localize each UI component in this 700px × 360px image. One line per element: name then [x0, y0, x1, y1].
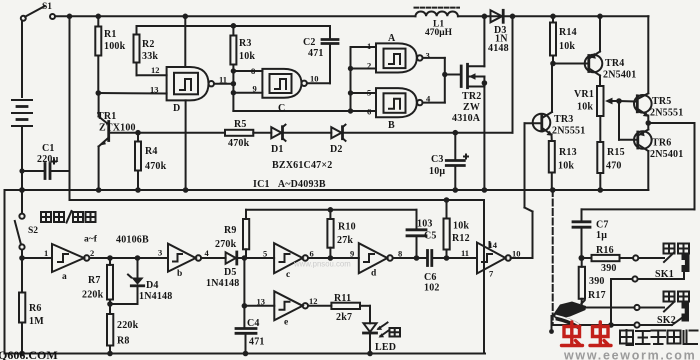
- svg-text:10k: 10k: [559, 41, 575, 52]
- svg-text:33k: 33k: [142, 51, 158, 62]
- transistor TR5 2N5551: [634, 16, 683, 123]
- svg-text:R10: R10: [338, 222, 356, 233]
- node TR1 collector / R1 / pin13: [96, 90, 167, 96]
- feedback net wire (R9,R10,C5 tops): [246, 209, 417, 211]
- svg-text:5: 5: [367, 88, 371, 98]
- resistor R9 270k: [215, 210, 249, 258]
- svg-text:10k: 10k: [453, 221, 469, 232]
- resistor R5 470k: [225, 119, 253, 149]
- svg-text:R12: R12: [452, 233, 470, 244]
- output node wire TR5/TR6 to C7: [582, 123, 695, 209]
- svg-text:C2: C2: [303, 37, 316, 48]
- svg-text:4310A: 4310A: [452, 113, 481, 124]
- battery B1: [12, 100, 32, 126]
- nand gate B (4093): [367, 88, 431, 132]
- resistor R2 33k: [134, 26, 167, 75]
- svg-text:2: 2: [367, 61, 371, 71]
- svg-text:R13: R13: [559, 147, 577, 158]
- svg-text:C1: C1: [42, 143, 55, 154]
- supply line after D3 down to bias row: [512, 16, 514, 132]
- ground rail: [5, 189, 649, 191]
- svg-text:R8: R8: [117, 336, 130, 347]
- svg-text:12: 12: [151, 65, 160, 75]
- ground drop to jacks (dashed scan line): [550, 187, 556, 325]
- label output (CJK) lower: [664, 292, 690, 302]
- wire gate D output branch to gates A and B inputs: [233, 47, 376, 114]
- node C7 / R16 / R17: [579, 255, 585, 261]
- svg-text:D2: D2: [330, 144, 343, 155]
- svg-text:5: 5: [263, 249, 267, 259]
- svg-text:S1: S1: [42, 2, 52, 12]
- svg-text:C6: C6: [424, 272, 437, 283]
- svg-text:TR2: TR2: [462, 91, 482, 102]
- svg-text:2: 2: [90, 248, 94, 258]
- svg-text:10: 10: [310, 74, 319, 84]
- transistor TR4 2N5401: [553, 13, 636, 86]
- resistor R16 390: [582, 245, 634, 274]
- resistor R12 10k: [444, 197, 470, 261]
- svg-text:TR1: TR1: [97, 111, 117, 122]
- svg-text:TR5: TR5: [652, 96, 672, 107]
- svg-text:TR3: TR3: [554, 114, 574, 125]
- svg-text:C4: C4: [247, 318, 260, 329]
- bias row wire TR1 base: [109, 132, 513, 134]
- svg-text:471: 471: [249, 337, 265, 348]
- svg-text:TR6: TR6: [652, 138, 672, 149]
- svg-text:1: 1: [44, 248, 48, 258]
- svg-text:D5: D5: [224, 267, 237, 278]
- resistor R7 220k: [82, 255, 113, 304]
- svg-text:13: 13: [257, 297, 266, 307]
- svg-text:102: 102: [424, 283, 440, 294]
- svg-text:R9: R9: [224, 225, 237, 236]
- svg-text:VR1: VR1: [574, 89, 594, 100]
- svg-text:103: 103: [417, 219, 433, 230]
- svg-text:R6: R6: [29, 303, 42, 314]
- svg-text:b: b: [177, 269, 182, 279]
- svg-text:c: c: [286, 270, 290, 280]
- gate D IC power ticks: [183, 13, 189, 192]
- svg-text:1M: 1M: [29, 316, 44, 327]
- svg-text:R3: R3: [239, 38, 252, 49]
- jack SK1: [611, 252, 690, 282]
- svg-text:2N5551: 2N5551: [552, 126, 585, 137]
- capacitor C2 471: [303, 26, 338, 83]
- wire R2 feedback net y=26: [137, 25, 331, 27]
- inverter f riser to TR3 base: [511, 123, 533, 258]
- wire battery to C1 row and ground rail: [19, 126, 25, 193]
- svg-text:BZX61C47×2: BZX61C47×2: [272, 160, 332, 171]
- resistor R8 220k: [107, 301, 139, 356]
- svg-text:2N5401: 2N5401: [650, 149, 683, 160]
- capacitor C5 103: [407, 210, 437, 261]
- LED (red): [364, 306, 397, 357]
- nand gate C (4093): [251, 66, 330, 114]
- svg-text:A: A: [388, 33, 396, 44]
- svg-text:220k: 220k: [117, 320, 139, 331]
- jack SK2: [553, 279, 689, 328]
- svg-text:3: 3: [426, 51, 430, 61]
- svg-text:SK1: SK1: [655, 269, 674, 280]
- svg-text:R5: R5: [234, 119, 247, 130]
- svg-text:R7: R7: [88, 275, 101, 286]
- label pulse/continuous (CJK): [41, 211, 96, 223]
- svg-text:D: D: [173, 103, 180, 114]
- svg-text:220μ: 220μ: [37, 154, 59, 165]
- resistor R11 2k7: [331, 293, 370, 323]
- resistor R6 1M: [19, 255, 44, 356]
- svg-text:D4: D4: [146, 280, 159, 291]
- inverter e (40106): [242, 291, 332, 327]
- resistor R14 10k: [550, 13, 577, 66]
- svg-text:Q606.COM: Q606.COM: [0, 348, 58, 360]
- svg-text:390: 390: [601, 263, 617, 274]
- diode D3 1N4148: [482, 10, 516, 54]
- inverter b (40106): [158, 244, 226, 279]
- svg-text:2N5401: 2N5401: [603, 70, 636, 81]
- svg-text:R16: R16: [596, 245, 614, 256]
- svg-text:www.pnsou.com: www.pnsou.com: [293, 260, 351, 269]
- inverter d (40106): [350, 243, 417, 278]
- resistor R4 470k: [135, 130, 167, 193]
- svg-text:C: C: [278, 103, 285, 114]
- capacitor C3 10u: [429, 130, 468, 193]
- svg-text:470k: 470k: [145, 161, 167, 172]
- svg-text:SK2: SK2: [657, 315, 676, 326]
- svg-text:1: 1: [367, 41, 371, 51]
- diode D1: [271, 125, 286, 155]
- lower box bottom rail: [5, 353, 486, 355]
- svg-text:IC1 A~D4093B: IC1 A~D4093B: [253, 179, 326, 190]
- svg-text:13: 13: [150, 85, 159, 95]
- svg-text:ZW: ZW: [463, 102, 480, 113]
- svg-text:R1: R1: [104, 29, 117, 40]
- svg-text:9: 9: [253, 84, 257, 94]
- resistor R17 390: [579, 258, 606, 308]
- lower VDD wire: [70, 200, 485, 354]
- inverter a (40106): [22, 244, 168, 282]
- capacitor C6 102: [417, 251, 447, 294]
- inverter f (40106): [447, 240, 521, 279]
- svg-text:B: B: [388, 120, 395, 131]
- svg-text:14: 14: [489, 240, 498, 250]
- svg-text:6: 6: [367, 107, 371, 117]
- svg-text:D1: D1: [271, 144, 284, 155]
- svg-text:R11: R11: [334, 293, 351, 304]
- label red (CJK) at LED: [390, 328, 401, 337]
- watermark text dianzi xiazai zhan (CJK): [620, 330, 698, 345]
- svg-text:470k: 470k: [228, 138, 250, 149]
- label a-f 40106B: [84, 235, 149, 246]
- svg-text:12: 12: [309, 296, 318, 306]
- svg-text:R2: R2: [142, 39, 155, 50]
- label pulse/continuous: [0, 0, 1, 1]
- svg-text:e: e: [284, 318, 288, 328]
- capacitor C7 1u: [573, 209, 609, 258]
- svg-text:470: 470: [606, 161, 622, 172]
- svg-text:C7: C7: [596, 220, 609, 231]
- svg-text:10k: 10k: [239, 51, 255, 62]
- transistor TR6 2N5401: [634, 120, 683, 190]
- transistor TR3 2N5551: [525, 64, 586, 142]
- svg-text:9: 9: [350, 249, 354, 259]
- lower box left edge: [4, 190, 6, 354]
- watermark cap logo: [549, 301, 586, 334]
- resistor R1 100k: [95, 13, 125, 93]
- capacitor C4 471: [236, 306, 265, 357]
- svg-text:471: 471: [308, 48, 324, 59]
- svg-text:d: d: [371, 269, 377, 279]
- svg-text:a: a: [62, 272, 67, 282]
- resistor R13 10k: [549, 141, 577, 190]
- svg-text:470μH: 470μH: [425, 28, 453, 38]
- switch S2: [15, 187, 38, 258]
- inverter c (40106): [263, 243, 359, 280]
- svg-text:1μ: 1μ: [596, 230, 607, 241]
- svg-text:4148: 4148: [488, 43, 509, 54]
- diode D2: [330, 125, 346, 155]
- diode D4 1N4148: [110, 255, 172, 304]
- svg-text:10k: 10k: [577, 102, 593, 113]
- resistor R3 10k: [230, 23, 255, 111]
- svg-text:C5: C5: [424, 231, 437, 242]
- svg-text:100k: 100k: [104, 41, 126, 52]
- svg-text:10: 10: [512, 249, 521, 259]
- svg-text:27k: 27k: [337, 235, 353, 246]
- resistor R10 27k: [327, 207, 355, 261]
- watermark chongchong (red CJK): [562, 322, 612, 346]
- svg-text:R17: R17: [588, 290, 606, 301]
- top supply rail: [55, 15, 649, 17]
- svg-text:a~f: a~f: [84, 235, 98, 245]
- svg-text:S2: S2: [28, 226, 38, 236]
- svg-text:40106B: 40106B: [116, 235, 149, 246]
- capacitor C1 220u: [24, 143, 70, 179]
- svg-text:2k7: 2k7: [336, 312, 352, 323]
- switch S1: [21, 2, 55, 21]
- wire gates A,B outputs to TR2 gate: [423, 58, 460, 103]
- svg-text:10μ: 10μ: [429, 166, 445, 177]
- wiper node to TR5 TR6 bases: [616, 98, 637, 140]
- mosfet TR2 ZW4310A: [452, 16, 487, 193]
- node pin5/R9/pin13: [242, 255, 275, 306]
- label output (CJK) upper: [664, 244, 690, 254]
- svg-text:220k: 220k: [82, 290, 104, 301]
- svg-text:11: 11: [461, 248, 469, 258]
- svg-text:R4: R4: [145, 146, 158, 157]
- wire S1 to battery: [21, 21, 23, 97]
- nand gate D (4093): [150, 65, 227, 114]
- resistor R15 470: [597, 142, 625, 193]
- svg-text:LED: LED: [375, 342, 396, 353]
- inductor L1 470uH: [415, 8, 460, 38]
- svg-text:www.eeworm.com: www.eeworm.com: [563, 349, 696, 360]
- svg-text:R14: R14: [559, 27, 577, 38]
- svg-text:10k: 10k: [558, 161, 574, 172]
- wire gate D output to gate C inputs: [214, 68, 262, 95]
- svg-text:C3: C3: [431, 154, 444, 165]
- svg-text:2N5551: 2N5551: [650, 108, 683, 119]
- svg-text:TR4: TR4: [605, 58, 625, 69]
- svg-text:390: 390: [589, 276, 605, 287]
- svg-text:3: 3: [158, 248, 162, 258]
- transistor TR1 ZTX100: [96, 93, 136, 193]
- svg-text:R15: R15: [607, 147, 625, 158]
- svg-text:1N4148: 1N4148: [139, 291, 172, 302]
- svg-text:8: 8: [251, 66, 255, 76]
- potentiometer VR1 10k: [574, 86, 619, 142]
- diode D5 1N4148: [206, 252, 244, 289]
- nand gate A (4093): [367, 33, 430, 73]
- wire C1 node riser to lower VDD rail: [67, 13, 73, 200]
- svg-text:270k: 270k: [215, 239, 237, 250]
- svg-text:1N4148: 1N4148: [206, 278, 239, 289]
